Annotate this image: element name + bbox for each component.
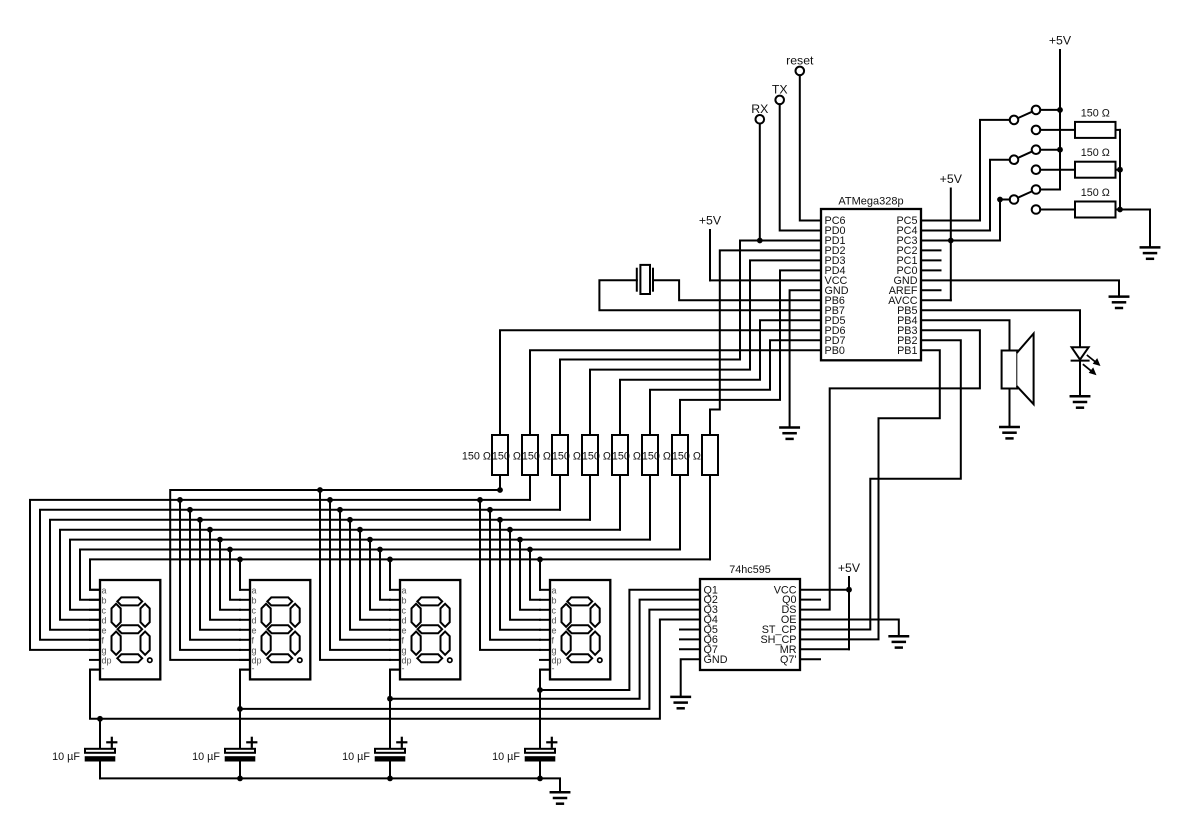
wire cap C4 top lead (539, 690, 541, 749)
wire PB5 to LED (921, 310, 1080, 347)
wire PB6 to crystal (653, 280, 821, 300)
wire display2 pin e tap (200, 520, 240, 630)
terminal RX (751, 102, 768, 124)
wire 74hc595 Q1 to display4 (540, 590, 700, 690)
junction e bus - display4 tap (497, 517, 503, 523)
wire reset to PC6 (800, 75, 821, 220)
wire cap C2 bottom lead (239, 762, 241, 779)
wire SW2 pole to PC4 (921, 160, 1010, 231)
bus line dp (170, 490, 500, 660)
junction rail-R11 (1117, 207, 1123, 213)
svg-text:g: g (402, 645, 407, 655)
resistor R10 150Ω (1075, 147, 1116, 178)
wire display4 pin c tap (520, 540, 540, 610)
svg-text:+5V: +5V (940, 172, 963, 186)
svg-text:150 Ω: 150 Ω (672, 450, 701, 462)
svg-text:g: g (552, 645, 557, 655)
wire display4 pin f tap (490, 510, 540, 640)
svg-text:+5V: +5V (838, 561, 861, 575)
wire display4 common (540, 670, 550, 690)
wire PB0 to R2 (530, 350, 821, 435)
svg-text:10 µF: 10 µF (492, 751, 520, 763)
wire display4 pin b tap (530, 550, 540, 600)
junction display1 common/cap (97, 716, 103, 722)
svg-text:-: - (102, 664, 105, 674)
junction rail-C4 (537, 776, 543, 782)
bus line g (30, 500, 530, 650)
LED D1 (1072, 347, 1100, 374)
pin Q7' stub (800, 658, 820, 660)
ground (speaker) (1000, 427, 1018, 438)
switch SW2 (SPDT) (1010, 145, 1041, 174)
pin PC0 stub (921, 269, 941, 271)
svg-text:TX: TX (772, 83, 788, 97)
ground (OE) (890, 636, 908, 647)
wire cap C1 bottom lead (99, 762, 101, 779)
resistor R6 150Ω (segment) (612, 435, 658, 475)
junction e bus - display3 tap (347, 517, 353, 523)
wire right rail (switch resistors) (1119, 130, 1121, 210)
svg-text:e: e (252, 625, 257, 635)
wire R3 to f bus (559, 475, 561, 510)
ground (LED) (1071, 396, 1089, 407)
svg-text:a: a (102, 585, 107, 595)
resistor R3 150Ω (segment) (522, 435, 568, 475)
wire +5V to AVCC (921, 299, 951, 301)
wire R2 to g bus (529, 475, 531, 500)
wire RX to PD1 (759, 124, 761, 241)
junction a bus - display4 tap (537, 557, 543, 563)
seven-segment display DS4 (540, 580, 610, 679)
svg-text:PB0: PB0 (825, 345, 845, 357)
svg-text:c: c (552, 605, 557, 615)
wire display3 pin f tap (340, 510, 390, 640)
wire R7 to b bus (679, 475, 681, 550)
junction g bus - display4 tap (477, 497, 483, 503)
junction dp bus - display3 tap (317, 487, 323, 493)
wire display3 pin dp tap (320, 490, 390, 660)
wire cap C4 bottom lead (539, 762, 541, 779)
svg-text:+5V: +5V (1049, 34, 1072, 48)
svg-text:e: e (402, 625, 407, 635)
svg-text:150 Ω: 150 Ω (1081, 187, 1110, 199)
svg-text:150 Ω: 150 Ω (492, 450, 521, 462)
junction g bus - display3 tap (327, 497, 333, 503)
shift register U2 74hc595 (700, 564, 800, 670)
pin PC2 stub (921, 249, 941, 251)
resistor R1 150Ω (segment) (462, 435, 508, 475)
svg-text:-: - (552, 664, 555, 674)
wire OE to ground (800, 620, 899, 637)
junction e bus - display2 tap (197, 517, 203, 523)
wire +5V to VCC (710, 279, 821, 281)
wire display4 pin g tap (480, 500, 540, 650)
svg-text:10 µF: 10 µF (52, 751, 80, 763)
pin Q0 stub (800, 599, 820, 601)
wire 74hc595 Q2 to display3 (390, 600, 700, 699)
svg-text:b: b (402, 595, 407, 605)
wire R8 to a bus (709, 475, 711, 559)
wire PD6 to R1 (500, 330, 821, 435)
microcontroller U1 ATMega328p (821, 196, 921, 361)
wire R11 right lead (1116, 209, 1121, 211)
wire PB7 to crystal (599, 280, 821, 310)
junction f bus - display3 tap (337, 507, 343, 513)
svg-text:c: c (252, 605, 257, 615)
svg-text:150 Ω: 150 Ω (582, 450, 611, 462)
wire 74hc595 Q4 to display1 (100, 620, 700, 719)
wire display3 pin b tap (380, 550, 390, 600)
wire display3 pin a tap (389, 559, 391, 589)
svg-text:150 Ω: 150 Ω (1081, 107, 1110, 119)
svg-text:150 Ω: 150 Ω (612, 450, 641, 462)
svg-text:74hc595: 74hc595 (729, 564, 770, 576)
bus line a (90, 559, 710, 589)
switch SW1 (SPDT) (1010, 106, 1041, 135)
junction c bus - display4 tap (517, 537, 523, 543)
wire SW3 top throw to +5V (1040, 189, 1060, 191)
svg-text:RX: RX (751, 102, 768, 116)
svg-text:a: a (252, 585, 257, 595)
wire display2 pin g tap (180, 500, 240, 650)
power +5V (VCC) (699, 214, 722, 281)
capacitor C2 10µF (192, 738, 256, 763)
wire display4 pin e tap (500, 520, 540, 630)
bus line d (60, 530, 620, 620)
capacitor C1 10µF (52, 738, 116, 763)
junction a bus - display3 tap (387, 557, 393, 563)
junction f bus - display2 tap (187, 507, 193, 513)
svg-text:+5V: +5V (699, 214, 722, 228)
junction c bus - display2 tap (217, 537, 223, 543)
pin PC1 stub (921, 259, 941, 261)
wire VCC to +5V (800, 589, 849, 591)
resistor R7 150Ω (segment) (642, 435, 688, 475)
junction rail-C3 (387, 776, 393, 782)
wire display2 pin c tap (220, 540, 240, 610)
wire LED to ground (1079, 361, 1081, 397)
svg-text:e: e (552, 625, 557, 635)
junction b bus - display2 tap (227, 547, 233, 553)
wire PD5 to R5 (620, 320, 821, 435)
wire GND(right) to ground (921, 280, 1119, 296)
junction b bus - display4 tap (527, 547, 533, 553)
svg-text:-: - (402, 664, 405, 674)
resistor R5 150Ω (segment) (582, 435, 628, 475)
wire TX to PD0 (780, 104, 821, 230)
wire R6 to c bus (649, 475, 651, 540)
power +5V (AVCC) (940, 172, 963, 300)
junction SW3 pole corner (997, 197, 1003, 203)
resistor R2 150Ω (segment) (492, 435, 538, 475)
svg-text:b: b (552, 595, 557, 605)
wire PB2 to 74hc595 ST_CP (800, 340, 961, 629)
wire MR to +5V (800, 648, 849, 650)
seven-segment display DS2 (240, 580, 310, 679)
wire display3 pin g tap (330, 500, 390, 650)
wire PD3 to R4 (590, 260, 821, 435)
wire display3 pin e tap (350, 520, 390, 630)
junction d bus - display4 tap (507, 527, 513, 533)
junction display2 common/cap (237, 706, 243, 712)
wire display2 pin a tap (239, 559, 241, 589)
wire display2 pin b tap (230, 550, 240, 600)
junction d bus - display2 tap (207, 527, 213, 533)
ground (MCU right) (1110, 297, 1128, 308)
pin Q6 stub (680, 638, 700, 640)
speaker SP1 (1002, 334, 1034, 405)
junction +5V-VCC(595) (846, 587, 852, 593)
resistor R11 150Ω (1075, 187, 1116, 218)
ground (cap rail) (551, 792, 569, 803)
svg-text:c: c (402, 605, 407, 615)
ground (switch resistors) (1141, 247, 1159, 258)
svg-text:150 Ω: 150 Ω (642, 450, 671, 462)
svg-text:Q7': Q7' (780, 654, 796, 666)
wire display2 pin d tap (210, 530, 240, 620)
wire R10 right lead (1116, 169, 1121, 171)
wire PD2 to R8 (710, 250, 821, 435)
junction SW2-+5V (1057, 147, 1063, 153)
junction RX-PD1 (757, 238, 763, 244)
ground (74hc595) (672, 697, 690, 708)
resistor R8 150Ω (segment) (672, 435, 718, 475)
bus line f (40, 510, 560, 640)
wire rail to ground (1120, 210, 1150, 248)
svg-text:c: c (102, 605, 107, 615)
wire cap C1 top lead (99, 719, 101, 749)
svg-text:a: a (552, 585, 557, 595)
wire PB3 to 74hc595 DS (800, 330, 980, 609)
wire 74hc595 Q3 to display2 (240, 610, 700, 709)
svg-text:d: d (102, 615, 107, 625)
junction rail-C2 (237, 776, 243, 782)
wire speaker to ground (1009, 389, 1011, 428)
wire 74hc595 GND to ground (681, 659, 700, 697)
junction display3 common/cap (387, 696, 393, 702)
wire cap C3 top lead (389, 699, 391, 749)
wire R5 to d bus (619, 475, 621, 530)
junction rail-R10 (1117, 167, 1123, 173)
junction SW1-+5V (1057, 107, 1063, 113)
seven-segment display DS3 (390, 580, 460, 679)
capacitor C3 10µF (342, 738, 406, 763)
wire display1 common (90, 670, 100, 719)
svg-text:e: e (102, 625, 107, 635)
wire SW1 bottom throw to R9 (1040, 129, 1075, 131)
terminal reset (786, 54, 814, 76)
resistor R9 150Ω (1075, 107, 1116, 137)
wire display2 common (240, 670, 250, 709)
junction R1-dp bus (497, 487, 503, 493)
resistor R4 150Ω (segment) (552, 435, 598, 475)
junction b bus - display3 tap (377, 547, 383, 553)
junction display4 common/cap (537, 687, 543, 693)
bus line c (70, 540, 650, 610)
svg-text:10 µF: 10 µF (192, 751, 220, 763)
svg-text:PB1: PB1 (897, 345, 917, 357)
power +5V (74hc595) (838, 561, 861, 649)
wire display3 pin d tap (360, 530, 390, 620)
wire R9 right lead (1116, 129, 1121, 131)
pin Q7 stub (680, 648, 700, 650)
junction +5V-PC3 (948, 238, 954, 244)
pin AREF stub (921, 289, 941, 291)
svg-text:a: a (402, 585, 407, 595)
seven-segment display DS1 (90, 580, 160, 679)
svg-text:150 Ω: 150 Ω (462, 450, 491, 462)
wire SW2 top throw to +5V (1040, 149, 1060, 151)
wire SW1 top throw to +5V (1040, 109, 1060, 111)
pin Q5 stub (680, 629, 700, 631)
junction a bus - display2 tap (237, 557, 243, 563)
svg-text:d: d (552, 615, 557, 625)
capacitor C4 10µF (492, 738, 556, 763)
svg-text:d: d (252, 615, 257, 625)
wire PB1 to 74hc595 SH_CP (800, 350, 940, 639)
junction f bus - display4 tap (487, 507, 493, 513)
crystal X1 (637, 265, 653, 294)
svg-text:150 Ω: 150 Ω (522, 450, 551, 462)
svg-text:g: g (252, 645, 257, 655)
wire SW3 pole to PC3 (921, 200, 1010, 241)
wire SW2 bottom throw to R10 (1040, 169, 1075, 171)
power +5V rail (switches) (1049, 34, 1072, 190)
wire R1 to dp bus (499, 475, 501, 490)
wire PD1 to R3 (560, 241, 821, 436)
wire SW3 bottom throw to R11 (1040, 209, 1075, 211)
wire SW1 pole to PC5 (921, 120, 1010, 221)
wire display2 pin f tap (190, 510, 240, 640)
svg-text:ATMega328p: ATMega328p (838, 196, 903, 208)
wire display4 pin d tap (510, 530, 540, 620)
svg-text:GND: GND (704, 654, 728, 666)
wire display4 pin a tap (539, 559, 541, 589)
svg-text:g: g (102, 645, 107, 655)
switch SW3 (SPDT) (1010, 185, 1041, 214)
wire cap C2 top lead (239, 709, 241, 749)
svg-text:10 µF: 10 µF (342, 751, 370, 763)
junction d bus - display3 tap (357, 527, 363, 533)
svg-text:b: b (252, 595, 257, 605)
svg-text:reset: reset (786, 54, 814, 68)
junction g bus - display2 tap (177, 497, 183, 503)
wire R4 to e bus (589, 475, 591, 520)
svg-text:150 Ω: 150 Ω (552, 450, 581, 462)
junction c bus - display3 tap (367, 537, 373, 543)
svg-text:-: - (252, 664, 255, 674)
bus line b (80, 550, 680, 600)
wire PB4 to speaker (921, 320, 1010, 350)
wire display3 common (390, 670, 400, 699)
wire PD7 to R6 (650, 340, 821, 435)
wire cap ground rail (100, 778, 560, 792)
wire display3 pin c tap (370, 540, 390, 610)
bus line e (50, 520, 590, 630)
ground (MCU left) (780, 428, 798, 439)
wire cap C3 bottom lead (389, 762, 391, 779)
svg-text:150 Ω: 150 Ω (1081, 147, 1110, 159)
terminal TX (772, 83, 788, 105)
svg-text:d: d (402, 615, 407, 625)
wire PD4 to R7 (680, 270, 821, 435)
wire GND(left) to ground (790, 290, 821, 427)
svg-text:b: b (102, 595, 107, 605)
